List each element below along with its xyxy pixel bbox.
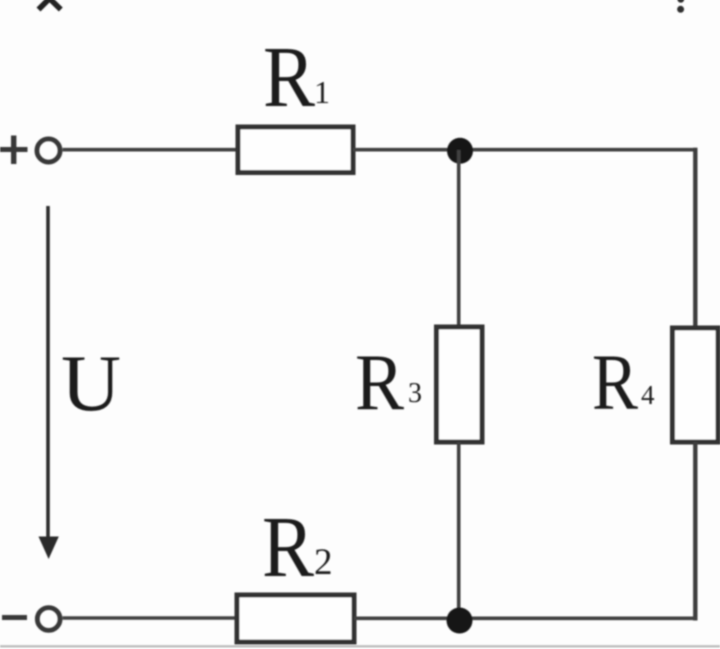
resistor R4 (673, 328, 719, 442)
label − (negative terminal sign) (2, 615, 27, 620)
svg-text:1: 1 (314, 74, 330, 110)
wire: R3 down to node B (457, 442, 461, 621)
wire: R1 to node A (353, 148, 460, 152)
svg-text:R: R (262, 498, 314, 595)
svg-text:R: R (355, 339, 405, 427)
wire: + terminal to R1 (63, 148, 238, 152)
wire: node A to top-right corner (460, 148, 697, 152)
svg-text:2: 2 (314, 542, 333, 583)
terminal circle + (37, 139, 60, 162)
svg-text:4: 4 (641, 380, 655, 410)
label + (positive terminal sign) (0, 136, 28, 165)
svg-text:R: R (263, 28, 315, 125)
svg-text:R: R (592, 340, 638, 427)
photo bottom edge line (0, 645, 720, 647)
terminal circle − (37, 608, 60, 631)
wire: − terminal to R2 (63, 616, 237, 620)
wire: right side vertical (corner to R4) (693, 148, 697, 328)
wire: R2 to node B (354, 616, 460, 620)
more-options dots (vertical ellipsis, partially cut) (677, 0, 684, 13)
voltage arrow U (shaft) (46, 206, 50, 539)
node A (top junction dot) (447, 138, 473, 164)
node B (bottom junction dot) (447, 608, 473, 634)
resistor R1 (238, 127, 353, 173)
resistor R2 (237, 595, 354, 642)
wire: R4 down to bottom-right corner (693, 442, 697, 621)
resistor R3 (437, 327, 483, 442)
wire: node B to bottom-right corner (460, 616, 697, 620)
svg-text:3: 3 (408, 378, 422, 409)
svg-text:U: U (61, 338, 121, 428)
close icon X (bottom half visible at top edge) (39, 0, 61, 10)
wire: node A down to R3 (457, 150, 461, 327)
voltage arrow U (head) (39, 537, 59, 560)
